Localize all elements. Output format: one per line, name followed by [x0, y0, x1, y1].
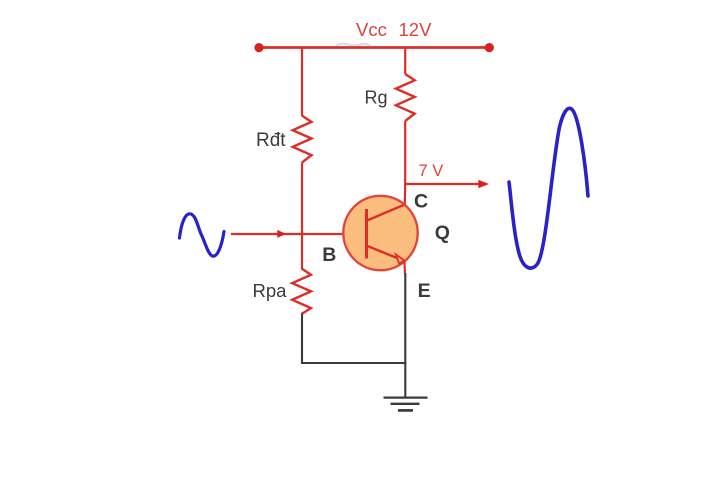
- wire emitter red stub: [403, 261, 406, 274]
- wire 7V node to collector: [404, 184, 407, 206]
- wire rail to Rg: [404, 47, 406, 74]
- svg-text:E: E: [418, 280, 431, 302]
- wire Rg to 7V node: [404, 121, 406, 184]
- wire bottom horizontal: [301, 362, 406, 364]
- svg-text:Rg: Rg: [365, 88, 388, 108]
- wire input line to base: [231, 233, 366, 235]
- transistor Q collector segment: [367, 205, 404, 221]
- wire to ground: [404, 363, 406, 397]
- wire Rdt to base node: [301, 163, 303, 235]
- wire Vcc power rail: [258, 46, 490, 49]
- resistor Rg: [396, 74, 415, 121]
- svg-text:Rđt: Rđt: [256, 130, 286, 151]
- svg-text:Q: Q: [435, 222, 450, 244]
- wire base node to Rpa: [301, 234, 303, 269]
- svg-text:Vcc: Vcc: [356, 19, 387, 40]
- wire emitter down (dark): [404, 273, 406, 363]
- wire rail to Rdt: [301, 47, 303, 116]
- svg-text:7 V: 7 V: [419, 162, 444, 180]
- transistor Q emitter arrowhead: [396, 254, 404, 263]
- node right rail terminal dot: [485, 43, 494, 52]
- resistor Rdt: [293, 116, 312, 163]
- wire 7V output arrow: [405, 180, 489, 189]
- resistor Rpa: [292, 269, 311, 315]
- svg-text:C: C: [414, 190, 428, 212]
- transistor Q base bar: [365, 209, 368, 259]
- svg-text:Rpa: Rpa: [253, 280, 288, 301]
- transistor Q body: [343, 196, 417, 270]
- smudge artifact on rail: [336, 44, 371, 47]
- output sine wave: [509, 108, 588, 268]
- node left rail terminal dot: [254, 43, 263, 52]
- ground: [384, 398, 428, 411]
- source input sine wave: [180, 214, 225, 256]
- svg-text:12V: 12V: [399, 19, 433, 40]
- transistor Q emitter segment: [367, 246, 399, 259]
- input arrowhead: [277, 230, 286, 238]
- svg-text:B: B: [322, 244, 336, 266]
- wire Rpa down (dark): [301, 314, 303, 364]
